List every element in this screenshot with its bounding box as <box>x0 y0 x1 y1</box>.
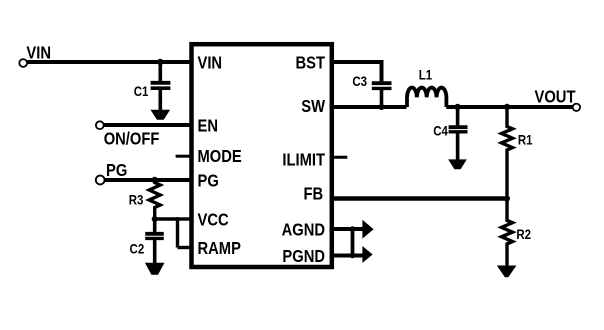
ground arrow PGND <box>362 246 372 263</box>
svg-text:SW: SW <box>301 97 325 117</box>
wire R3/C2 junction to VCC <box>155 217 178 220</box>
ground below R2 <box>497 266 517 278</box>
svg-text:R3: R3 <box>129 191 144 207</box>
op-amp U1 IC body <box>192 44 332 267</box>
svg-text:PGND: PGND <box>282 246 325 266</box>
pin RAMP stub <box>178 246 192 249</box>
svg-text:ILIMIT: ILIMIT <box>282 150 325 170</box>
terminal VIN circle <box>19 59 27 67</box>
wire AGND-PGND tie <box>351 229 355 256</box>
inductor L1 <box>407 88 446 107</box>
ground below C2 <box>145 263 165 275</box>
node junction VIN/C1 <box>157 59 163 65</box>
svg-text:RAMP: RAMP <box>198 239 241 259</box>
wire FB to R1/R2 divider <box>331 196 507 200</box>
terminal PG circle <box>96 176 105 185</box>
wire AGND <box>331 227 364 231</box>
svg-text:VCC: VCC <box>198 210 229 230</box>
svg-text:BST: BST <box>296 53 325 73</box>
svg-text:EN: EN <box>198 116 218 136</box>
wire L1 to VOUT <box>446 105 573 109</box>
node junction R1/VOUT line <box>504 104 510 110</box>
wire PG terminal to pin PG <box>105 178 192 182</box>
svg-text:PG: PG <box>106 161 127 181</box>
svg-text:C2: C2 <box>130 240 145 256</box>
wire ON/OFF to pin EN <box>104 123 192 127</box>
svg-text:C3: C3 <box>352 73 367 89</box>
wire VIN terminal to pin VIN <box>27 60 191 64</box>
svg-text:MODE: MODE <box>198 147 242 167</box>
node junction tie/PGND <box>350 253 356 259</box>
node junction PG/R3 <box>152 177 158 183</box>
svg-text:C1: C1 <box>134 83 149 99</box>
svg-text:VIN: VIN <box>26 43 51 63</box>
node junction C3/SW <box>379 104 385 110</box>
capacitor C2 <box>145 219 164 263</box>
wire SW line <box>331 105 407 109</box>
svg-text:R2: R2 <box>516 226 531 242</box>
wire BST to C3 <box>331 62 382 81</box>
wire PGND <box>331 254 364 258</box>
capacitor C3 <box>372 83 392 107</box>
capacitor C1 <box>151 62 171 110</box>
svg-text:VIN: VIN <box>198 53 223 73</box>
ground below C1 <box>151 110 171 120</box>
pin MODE stub <box>176 155 192 158</box>
node junction tie/AGND <box>350 226 356 232</box>
capacitor C4 <box>449 107 468 160</box>
pin ILIMIT stub <box>331 156 347 159</box>
svg-text:VOUT: VOUT <box>535 87 576 107</box>
svg-text:FB: FB <box>304 184 324 204</box>
svg-text:R1: R1 <box>518 131 533 147</box>
ground below C4 <box>448 159 467 169</box>
terminal ON/OFF circle <box>96 121 104 129</box>
svg-text:C4: C4 <box>433 122 448 138</box>
resistor R2 <box>502 199 513 266</box>
node junction C4 <box>454 104 460 110</box>
wire VCC to RAMP tie <box>176 217 179 247</box>
terminal VOUT circle <box>573 104 580 111</box>
ground arrow AGND <box>362 220 373 239</box>
svg-text:ON/OFF: ON/OFF <box>104 129 160 149</box>
svg-text:AGND: AGND <box>282 220 326 240</box>
pin VCC stub <box>178 217 192 220</box>
svg-text:PG: PG <box>198 171 219 191</box>
resistor R1 <box>502 107 513 199</box>
resistor R3 <box>149 180 160 219</box>
svg-text:L1: L1 <box>419 66 432 82</box>
node junction FB/R1/R2 <box>504 196 510 202</box>
node junction R3/C2/VCC <box>152 216 158 222</box>
